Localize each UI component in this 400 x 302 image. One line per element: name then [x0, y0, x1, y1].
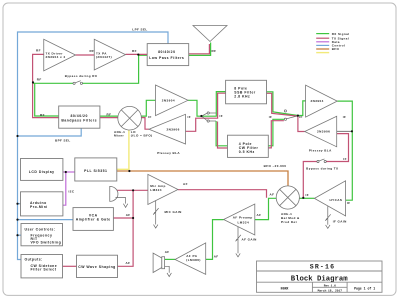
svg-text:RF: RF [40, 113, 45, 117]
svg-text:N6KR: N6KR [281, 287, 289, 291]
svg-text:2N3904: 2N3904 [162, 99, 175, 103]
svg-text:RF: RF [36, 49, 41, 53]
svg-text:(2N4427): (2N4427) [96, 55, 112, 59]
svg-text:IF: IF [343, 115, 347, 119]
svg-text:LCD Display: LCD Display [29, 170, 55, 174]
svg-text:March 18, 2017: March 18, 2017 [318, 288, 343, 292]
svg-text:RX Signal: RX Signal [332, 32, 350, 36]
svg-text:AF: AF [165, 250, 170, 254]
svg-text:SR-16: SR-16 [310, 264, 336, 271]
svg-text:BPF SEL: BPF SEL [55, 138, 71, 142]
svg-text:Amplifier & Gate: Amplifier & Gate [76, 217, 111, 221]
svg-text:RF: RF [132, 49, 137, 53]
svg-text:(fLO = BFO): (fLO = BFO) [131, 134, 153, 138]
svg-text:IF: IF [148, 115, 152, 119]
svg-text:RF: RF [107, 112, 112, 116]
svg-text:Page 1 of 1: Page 1 of 1 [354, 287, 375, 291]
svg-text:Prod Det: Prod Det [281, 220, 297, 224]
svg-text:CW Wave Shaping: CW Wave Shaping [78, 265, 116, 269]
svg-text:AF: AF [257, 213, 262, 217]
svg-text:Outputs:: Outputs: [25, 258, 43, 262]
svg-text:PLL Si5351: PLL Si5351 [84, 169, 107, 173]
svg-text:AF GAIN: AF GAIN [242, 238, 257, 242]
svg-text:MIC GAIN: MIC GAIN [165, 210, 182, 214]
svg-text:80/40/20: 80/40/20 [158, 50, 175, 54]
svg-text:Rev 1.6: Rev 1.6 [324, 284, 336, 287]
svg-text:IF: IF [269, 115, 273, 119]
svg-text:IF: IF [188, 115, 192, 119]
svg-text:I2C: I2C [69, 189, 75, 193]
svg-text:AF Preamp: AF Preamp [233, 216, 253, 220]
svg-text:HYCAS: HYCAS [330, 198, 343, 202]
svg-text:Plessey BLA: Plessey BLA [157, 151, 180, 155]
svg-text:(LM386): (LM386) [186, 258, 200, 262]
svg-text:2N3906: 2N3906 [317, 130, 330, 134]
svg-text:BFO: BFO [332, 47, 340, 51]
svg-text:2N3906: 2N3906 [167, 128, 180, 132]
svg-text:AF: AF [126, 213, 131, 217]
svg-text:IF: IF [347, 201, 351, 205]
svg-text:Mixer: Mixer [114, 134, 124, 138]
svg-text:AF: AF [183, 182, 188, 186]
svg-text:BFO ~20.000: BFO ~20.000 [264, 164, 287, 168]
svg-text:IF: IF [306, 193, 310, 197]
svg-text:Pro-Mini: Pro-Mini [30, 205, 48, 209]
svg-text:Block Diagram: Block Diagram [291, 276, 349, 284]
svg-text:Bypass during RX: Bypass during RX [65, 74, 98, 78]
svg-text:AF: AF [270, 192, 275, 196]
svg-text:User Controls:: User Controls: [25, 228, 56, 232]
svg-text:Low Pass Filters: Low Pass Filters [149, 56, 184, 60]
svg-text:LM324: LM324 [238, 220, 250, 224]
svg-text:AF: AF [214, 254, 219, 258]
svg-text:VFO Switching: VFO Switching [31, 241, 62, 245]
svg-text:0.5 KHz: 0.5 KHz [239, 150, 255, 154]
svg-text:IF: IF [220, 114, 224, 118]
svg-text:IF: IF [299, 115, 303, 119]
svg-text:2N3904 x 4: 2N3904 x 4 [46, 55, 66, 59]
svg-text:LPF SEL: LPF SEL [132, 27, 147, 31]
svg-text:Bandpass Filters: Bandpass Filters [61, 118, 97, 122]
svg-text:2N3904: 2N3904 [311, 99, 324, 103]
svg-text:IF: IF [343, 157, 347, 161]
svg-text:Plessey BLA: Plessey BLA [309, 149, 332, 153]
svg-text:IF GAIN: IF GAIN [333, 220, 347, 224]
svg-text:AF: AF [126, 261, 131, 265]
svg-text:LM324: LM324 [150, 188, 162, 192]
svg-text:80/40/20: 80/40/20 [71, 114, 88, 118]
svg-text:Filter Select: Filter Select [31, 268, 57, 272]
svg-text:2.8 KHz: 2.8 KHz [234, 95, 250, 99]
svg-text:RF: RF [37, 77, 42, 81]
svg-text:RF: RF [90, 49, 95, 53]
svg-text:RF: RF [212, 49, 217, 53]
svg-text:Bypass during TX: Bypass during TX [306, 166, 338, 170]
